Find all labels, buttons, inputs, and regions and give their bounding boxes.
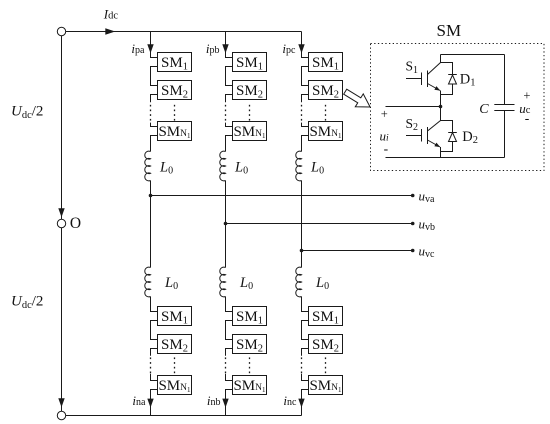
IGBT S1 body bar [427,71,429,88]
inductor L0 (lower arm c) [296,267,302,297]
diode D2 triangle [449,133,457,142]
svg-text:-: - [525,110,530,125]
terminal dot: output u_vc [411,249,415,253]
inductor L0 (lower arm a) [145,267,151,297]
wire: inductor to SM1 (lower arm b) [226,297,233,312]
ellipsis: further submodules (lower arm c) [301,357,326,373]
wire: SMN1 upper stub (lower arm b) [226,374,233,381]
capacitor C plate lower [494,110,514,112]
wire: SM top rail [441,54,505,56]
wire: SM1-SM2 link (upper arm a) [151,67,158,86]
svg-text:SM: SM [437,21,462,40]
terminal dot: output u_va [411,194,415,198]
IGBT S2 body bar [427,127,429,144]
wire: SM1-SM2 link (upper arm c) [302,67,309,86]
wire: inductor to phase node c [301,181,303,251]
wire: SM2 lower stub (lower arm a) [151,349,158,356]
submodule SM2 (lower arm c) [309,335,343,355]
submodule SM2 (lower arm b) [233,335,267,355]
current arrow ina [147,399,153,408]
submodule SMN1 (upper arm c) [309,122,343,141]
wire: inductor to SM1 (lower arm a) [151,297,158,312]
wire: capacitor lower lead [504,111,506,158]
wire: dc link upper half [61,36,63,219]
wire: upper arm c feed from positive bus [302,32,309,58]
wire: SM2 lower stub (lower arm c) [302,349,309,356]
junction: phase node a [149,194,153,198]
wire: ac output phase b [226,223,413,225]
submodule SMN1 (lower arm b) [233,376,267,395]
submodule SM2 (upper arm b) [233,81,267,101]
wire: SMN1 upper stub (lower arm c) [302,374,309,381]
wire: SMN1 to negative bus (lower arm a) [151,390,158,416]
capacitor C plate upper [494,104,514,106]
wire: SM2 lower stub (lower arm b) [226,349,233,356]
wire: upper arm a feed from positive bus [151,32,158,58]
ellipsis: further submodules (upper arm b) [225,105,250,121]
wire: phase node to lower inductor (lower arm b) [225,224,227,268]
current arrow ipb [222,44,228,53]
wire: SMN1 upper stub (upper arm c) [302,123,309,127]
wire: positive dc bus [66,31,302,33]
wire: SM1-SM2 link (upper arm b) [226,67,233,86]
wire: SM2 lower stub (upper arm a) [151,95,158,103]
submodule SM1 (lower arm a) [158,307,192,327]
wire: inductor to phase node a [150,181,152,196]
submodule SM1 (lower arm c) [309,307,343,327]
junction: SM midpoint [439,105,443,109]
terminal: negative dc rail [57,411,65,419]
svg-text:O: O [70,215,81,232]
IGBT S1 emitter lead [428,84,441,91]
IGBT S2 gate lead [406,135,422,137]
wire: SM1-SM2 link (lower arm c) [302,321,309,340]
inductor L0 (lower arm b) [220,267,226,297]
wire: SMN1 to arm inductor (upper arm a) [151,136,158,152]
terminal dot: output u_vb [411,222,415,226]
wire: SM1-SM2 link (lower arm b) [226,321,233,340]
current arrow toward node O [58,208,64,217]
IGBT S2 emitter arrow [434,143,440,148]
wire: SM2 lower stub (upper arm c) [302,95,309,103]
wire: SM2 lower stub (upper arm b) [226,95,233,103]
IGBT S2 gate bar [421,129,423,142]
svg-text:C: C [479,102,489,117]
submodule SM2 (upper arm a) [158,81,192,101]
current arrow inb [222,399,228,408]
submodule SMN1 (lower arm c) [309,376,343,395]
submodule SM1 (upper arm b) [233,53,267,73]
inductor L0 (upper arm c) [296,151,302,181]
wire: negative dc bus [66,415,302,417]
IGBT S1 gate lead [406,78,422,80]
wire: phase node to lower inductor (lower arm c) [301,251,303,268]
diode D2 branch [441,121,453,152]
current arrow ipa [147,44,153,53]
wire: SMN1 to arm inductor (upper arm c) [302,136,309,152]
ellipsis: further submodules (upper arm c) [301,105,326,121]
diode D1 triangle [449,75,457,84]
wire: S2 emitter to bottom rail [440,147,442,158]
wire: SMN1 to negative bus (lower arm c) [302,390,309,416]
junction: phase node c [300,249,304,253]
wire: SMN1 to arm inductor (upper arm b) [226,136,233,152]
wire: upper arm b feed from positive bus [226,32,233,58]
IGBT S1 collector lead [428,55,441,75]
diode D1 cathode bar [448,74,457,76]
wire: capacitor upper lead [504,55,506,105]
wire: phase node to lower inductor (lower arm a) [150,196,152,268]
wire: SM bottom rail [386,157,505,159]
wire: SMN1 upper stub (lower arm a) [151,374,158,381]
submodule SMN1 (upper arm a) [158,122,192,141]
submodule SMN1 (lower arm a) [158,376,192,395]
wire: SMN1 upper stub (upper arm b) [226,123,233,127]
IGBT S1 emitter arrow [434,86,440,91]
wire: S1 emitter to midpoint [440,91,442,107]
wire: inductor to phase node b [225,181,227,224]
ellipsis: further submodules (lower arm a) [150,357,175,373]
inductor L0 (upper arm b) [220,151,226,181]
diode D2 cathode bar [448,132,457,134]
submodule SM2 (upper arm c) [309,81,343,101]
submodule SM1 (upper arm c) [309,53,343,73]
IGBT S2 emitter lead [428,140,441,147]
svg-text:-: - [384,141,389,156]
IGBT S2 collector lead [428,107,441,132]
current arrow toward negative terminal [58,398,64,407]
wire: ac output phase c [302,250,413,252]
svg-text:+: + [381,107,388,121]
submodule detail enclosure (dashed) [371,44,545,171]
inductor L0 (upper arm a) [145,151,151,181]
terminal: positive dc rail [57,27,65,35]
submodule SMN1 (upper arm b) [233,122,267,141]
ellipsis: further submodules (lower arm b) [225,357,250,373]
terminal: midpoint node O [57,219,65,227]
current arrow Idc [105,28,115,34]
wire: dc link lower half [61,228,63,411]
submodule SM1 (upper arm a) [158,53,192,73]
junction: phase node b [224,222,228,226]
wire: ac output phase a [151,195,413,197]
wire: SM input lead [386,106,441,108]
submodule SM1 (lower arm b) [233,307,267,327]
diode D1 branch [441,63,453,95]
IGBT S1 gate bar [421,73,423,86]
ellipsis: further submodules (upper arm a) [150,105,175,121]
current arrow ipc [298,44,304,53]
current arrow inc [298,399,304,408]
wire: SMN1 to negative bus (lower arm b) [226,390,233,416]
wire: SM1-SM2 link (lower arm a) [151,321,158,340]
wire: SMN1 upper stub (upper arm a) [151,123,158,127]
callout block arrow to SM detail [341,85,374,113]
wire: inductor to SM1 (lower arm c) [302,297,309,312]
submodule SM2 (lower arm a) [158,335,192,355]
